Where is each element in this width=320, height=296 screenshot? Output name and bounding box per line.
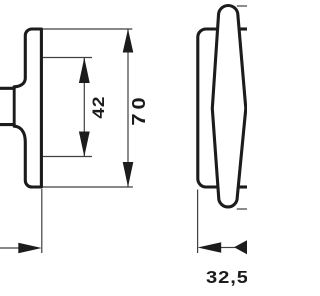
svg-text:70: 70 (130, 93, 150, 125)
arrow 32,5 right (cropped) (234, 240, 247, 254)
arrow 32,5 left (198, 242, 222, 253)
left view: neck junction line (13, 86, 16, 126)
arrow depth right (18, 243, 42, 253)
extension line grip top (cropped right) (237, 5, 247, 7)
right view: rosette left part (198, 29, 218, 187)
right view: grip olive (212, 5, 246, 206)
arrow 70 down (123, 162, 134, 187)
right view: rosette bottom-right segment (238, 185, 247, 188)
extension line grip bottom (cropped right) (237, 208, 247, 210)
dimension line 70 (127, 29, 129, 187)
dimension line 42 (83, 58, 85, 157)
svg-text:42: 42 (89, 96, 108, 119)
right view: rosette top-right segment (239, 27, 247, 30)
extension line 42-top (42, 57, 92, 59)
svg-text:32,5: 32,5 (206, 268, 247, 288)
depth dimension line (cropped left) (0, 247, 22, 249)
dimension line 32,5 (221, 247, 235, 249)
left view: knob side profile (0, 29, 41, 187)
extension line 32,5 left (197, 190, 199, 254)
arrow 70 up (123, 29, 134, 53)
arrow 42 up (79, 58, 90, 84)
extension line bottom of knob (70 dim) (41, 186, 133, 188)
extension line below left view (41, 189, 43, 253)
extension line top of knob (70 dim, left view) (41, 28, 132, 30)
arrow 42 down (79, 132, 90, 157)
extension line 42-bottom (42, 156, 92, 158)
